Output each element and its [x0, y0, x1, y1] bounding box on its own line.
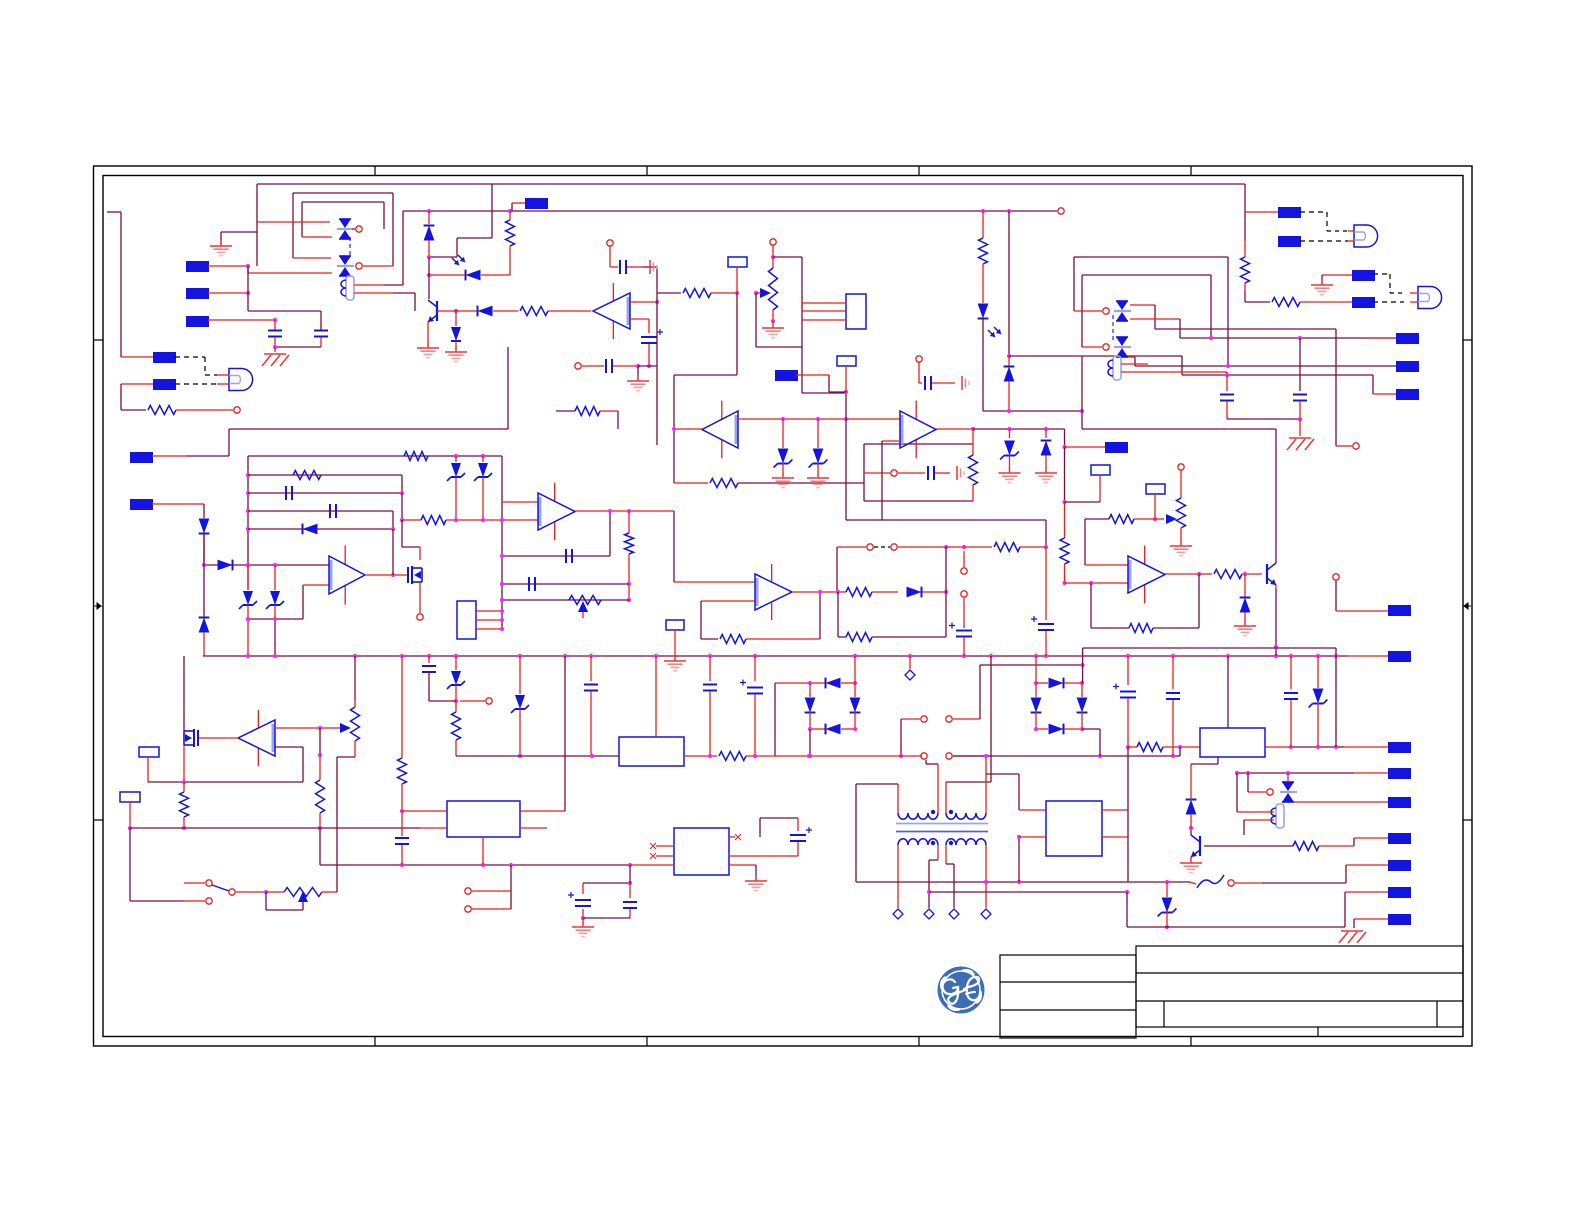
- wire: [1335, 656, 1337, 747]
- resistor R24: [398, 758, 407, 813]
- resistor R20: [846, 588, 898, 597]
- node: [512, 208, 1064, 214]
- node: [352, 226, 362, 232]
- wire: [984, 754, 988, 814]
- resistor R10: [404, 452, 428, 461]
- zener Z5: [772, 419, 794, 488]
- wire: [674, 511, 755, 582]
- diode D9: [907, 587, 949, 598]
- wire: [1227, 417, 1302, 436]
- connector J1: [186, 261, 250, 272]
- wire: [583, 918, 630, 926]
- capacitor C24: [623, 902, 637, 918]
- node: [916, 356, 922, 383]
- zener Z11: [447, 656, 465, 703]
- wire: [1244, 212, 1246, 257]
- wire: [1265, 746, 1291, 748]
- wire: [365, 529, 395, 577]
- resistor R17: [1091, 583, 1153, 633]
- wire: [500, 509, 612, 558]
- wire: [456, 754, 619, 758]
- wire: [246, 456, 250, 590]
- op-amp U3: [538, 483, 575, 541]
- wire: [427, 273, 465, 277]
- connector J4: [107, 212, 176, 363]
- node: [460, 698, 492, 704]
- ground: [762, 321, 784, 338]
- wire: [1034, 656, 1038, 685]
- connector J24: [1354, 914, 1411, 928]
- wire: [802, 303, 846, 320]
- wire: [1082, 275, 1211, 347]
- wire: [248, 311, 321, 330]
- wire: [476, 618, 504, 622]
- switch SW4: [921, 753, 991, 759]
- bridge diode D17: [1034, 724, 1084, 735]
- wire: [349, 237, 351, 258]
- wire: [393, 574, 402, 576]
- diode D18: [1186, 757, 1218, 828]
- wire: [402, 520, 420, 560]
- wire: [1274, 589, 1278, 656]
- diode D19: [1035, 429, 1057, 483]
- wire: [175, 383, 229, 385]
- wire: [808, 729, 812, 758]
- resistor R5: [683, 289, 739, 298]
- border frame inner: [103, 176, 1463, 1037]
- resistor R29: [452, 701, 461, 756]
- ground: [1339, 931, 1366, 943]
- capacitor C5: [919, 376, 955, 390]
- wire: [248, 527, 395, 531]
- ground: [1180, 857, 1202, 873]
- wire: [1007, 211, 1011, 358]
- led DS-L1: [978, 304, 1001, 412]
- connector J8: [1366, 333, 1419, 344]
- capacitor C25: [422, 656, 436, 701]
- wire: [275, 726, 340, 730]
- terminal: [893, 909, 903, 919]
- op-amp U7: [702, 401, 738, 459]
- ground: [627, 366, 649, 391]
- border ticks: [94, 166, 1473, 1046]
- node: [1248, 773, 1273, 795]
- wire: [275, 747, 303, 782]
- node: [770, 239, 776, 259]
- wire: [674, 293, 737, 483]
- wire: [729, 865, 756, 880]
- switch SW2: [465, 865, 511, 912]
- wire: [864, 444, 973, 501]
- op-amp U10: [238, 710, 275, 766]
- wire: [1121, 372, 1227, 375]
- wire: [657, 292, 681, 294]
- wire: [629, 865, 631, 883]
- photodiode U-PD1: [452, 255, 510, 280]
- wire: [1082, 648, 1084, 683]
- transformer T1 secondary: [898, 839, 986, 845]
- node: [417, 614, 423, 620]
- resistor R25: [1128, 743, 1200, 752]
- wire: [1130, 305, 1336, 329]
- ground: [962, 376, 969, 390]
- wire: [897, 845, 899, 908]
- switch SW1: [184, 880, 268, 895]
- wire: [1082, 356, 1276, 429]
- wire: [946, 845, 954, 908]
- wire: [846, 520, 1048, 549]
- resistor R26: [1204, 842, 1354, 851]
- wire: [882, 441, 900, 520]
- capacitor C7: [1220, 375, 1234, 419]
- wire: [1130, 319, 1180, 338]
- triac Q-T2: [337, 256, 354, 276]
- potentiometer P4: [351, 656, 360, 757]
- opto coil U-OC1: [341, 276, 354, 300]
- rect label: [837, 356, 856, 392]
- wire: [1127, 926, 1345, 928]
- ground: [262, 347, 289, 366]
- wire: [482, 837, 484, 865]
- wire: [1045, 547, 1047, 620]
- wire: [1074, 257, 1228, 366]
- node: [575, 363, 604, 369]
- node: [961, 551, 967, 574]
- wire: [1244, 820, 1274, 835]
- potentiometer P5: [266, 888, 322, 911]
- connector J6: [512, 198, 548, 211]
- wire: [856, 784, 898, 882]
- GE logo: [938, 967, 985, 1014]
- wire: [984, 845, 988, 884]
- opto coil U-OC2: [1108, 356, 1121, 380]
- wire: [1121, 363, 1148, 365]
- capacitor C13 electrolytic: [949, 623, 972, 657]
- rect label: [1065, 465, 1111, 502]
- wire: [302, 202, 384, 237]
- connector J16: [130, 499, 204, 510]
- rect label: [666, 620, 684, 660]
- bus wire: [203, 654, 1348, 658]
- potentiometer P3: [1155, 464, 1192, 556]
- diode D8: [1234, 574, 1256, 636]
- connector J-T1: [1278, 207, 1301, 218]
- ic U12: [1046, 801, 1102, 856]
- switch SW3: [899, 716, 980, 758]
- op-amp U5: [329, 545, 365, 604]
- potentiometer P2: [569, 596, 601, 619]
- diode D2: [445, 309, 467, 362]
- wire: [1300, 240, 1348, 242]
- mosfet Q2: [402, 566, 422, 584]
- connector J12: [1278, 236, 1301, 247]
- node: [1353, 443, 1359, 449]
- resistor R7: [969, 429, 978, 501]
- triac Q-T6: [1280, 773, 1297, 802]
- wire: [927, 845, 938, 908]
- wire: [792, 590, 846, 594]
- transistor Q5: [1189, 826, 1200, 857]
- terminal: [981, 882, 991, 919]
- ic U13: [1200, 728, 1265, 757]
- wire: [856, 880, 1190, 884]
- zener Z3: [239, 565, 257, 656]
- wire: [926, 760, 938, 813]
- capacitor C14 electrolytic: [1031, 616, 1054, 656]
- triac Q-T3: [1114, 301, 1131, 321]
- wire: [1112, 315, 1114, 343]
- connector J3: [186, 316, 277, 327]
- wire: [986, 774, 1046, 882]
- connector J7: [1105, 442, 1128, 453]
- wire: [737, 417, 900, 421]
- connector J13: [1352, 270, 1375, 281]
- wire: [401, 656, 403, 758]
- wire: [248, 454, 502, 458]
- triac Q-T1: [337, 219, 354, 239]
- wire: [708, 754, 811, 758]
- wire: [354, 211, 403, 285]
- wire: [500, 582, 629, 586]
- connector J19b: [1336, 742, 1411, 753]
- potentiometer P1 wiper: [754, 288, 771, 298]
- capacitor C11: [566, 549, 572, 563]
- connector J5: [121, 379, 176, 410]
- connector J19: [775, 370, 846, 392]
- resistor R27: [674, 479, 864, 488]
- zener Z8: [1158, 882, 1177, 929]
- capacitor C16: [584, 656, 598, 756]
- wire: [1373, 301, 1404, 303]
- lamp DS3: [1410, 287, 1442, 309]
- bridge diode D13: [808, 724, 857, 735]
- wire: [983, 409, 1084, 413]
- resistor R1: [121, 406, 233, 415]
- wire: [248, 258, 332, 273]
- wire: [837, 547, 866, 592]
- connector J22: [1354, 833, 1411, 846]
- wire: [273, 345, 321, 349]
- potentiometer P4 wiper: [340, 723, 351, 733]
- wire: [257, 222, 332, 237]
- resistor R28: [684, 752, 922, 761]
- node: [864, 470, 897, 476]
- wire: [990, 656, 992, 782]
- potentiometer P1: [769, 257, 778, 323]
- capacitor C15: [395, 811, 409, 865]
- wire: [402, 810, 447, 812]
- resistor R12: [421, 516, 538, 525]
- ic U11: [447, 801, 520, 837]
- resistor R18: [1199, 570, 1262, 579]
- wire: [630, 267, 659, 304]
- wire: [175, 357, 229, 375]
- wire: [638, 302, 657, 445]
- node: [206, 898, 212, 904]
- ground: [572, 921, 594, 937]
- transistor Q1: [428, 257, 449, 347]
- wire: [476, 609, 504, 613]
- wire: [322, 757, 355, 892]
- bridge diode D12: [850, 656, 861, 729]
- bridge diode D16: [1077, 683, 1088, 729]
- wire: [1126, 892, 1128, 927]
- wire: [1289, 745, 1338, 749]
- wire: [936, 427, 1065, 431]
- wire: [1348, 655, 1388, 657]
- wire: [655, 656, 657, 737]
- capacitor C19 electrolytic: [1113, 656, 1136, 749]
- wire: [1179, 747, 1181, 756]
- ic U14: [674, 828, 729, 875]
- connector J18: [1388, 651, 1411, 662]
- wire: [221, 184, 257, 266]
- ground: [664, 655, 686, 671]
- resistor R14: [964, 543, 1046, 552]
- ground: [210, 232, 232, 256]
- diode D1: [424, 211, 435, 257]
- connector J10: [1396, 389, 1419, 400]
- lamp DS1: [229, 369, 253, 391]
- transformer core: [896, 824, 988, 832]
- resistor R22: [180, 782, 189, 830]
- connector J2: [186, 266, 250, 311]
- connector J14: [1352, 297, 1375, 308]
- connector J23: [1345, 887, 1411, 927]
- wire: [980, 663, 1085, 719]
- border frame outer: [94, 166, 1473, 1046]
- connector J20: [1235, 768, 1411, 779]
- wire: [1336, 329, 1352, 446]
- mosfet Q4: [184, 656, 204, 782]
- wire: [148, 780, 303, 784]
- resistor R15: [1060, 447, 1069, 585]
- op-amp U8: [900, 401, 936, 459]
- wire: [929, 890, 1129, 894]
- wire: [500, 598, 629, 602]
- capacitor C12: [529, 577, 535, 591]
- wire: [630, 864, 674, 866]
- capacitor C3: [610, 260, 657, 274]
- capacitor C6: [898, 466, 950, 480]
- capacitor C22 electrolytic: [729, 818, 812, 856]
- rect label: [120, 792, 140, 830]
- zener Z10: [999, 429, 1021, 483]
- node: [1074, 308, 1109, 314]
- resistor R2: [506, 211, 515, 275]
- zener Z6: [807, 419, 829, 488]
- wire: [1009, 356, 1182, 375]
- rect label: [1146, 484, 1165, 521]
- wire: [1180, 336, 1396, 340]
- capacitor C4: [606, 359, 651, 373]
- bridge diode D10: [808, 678, 857, 689]
- transistor Q3: [1267, 429, 1276, 589]
- zener Z2: [474, 456, 492, 520]
- zener Z9: [1309, 656, 1328, 747]
- wire: [248, 511, 393, 529]
- bridge diode D14: [1036, 678, 1084, 689]
- ic U15: [619, 737, 684, 766]
- capacitor C23 electrolytic: [568, 883, 591, 920]
- capacitor C9: [286, 486, 292, 500]
- op-amp U9: [755, 564, 792, 620]
- wire: [257, 184, 1278, 212]
- connector J15: [130, 452, 229, 463]
- wire: [403, 209, 512, 213]
- title block: [1000, 946, 1463, 1038]
- node: [1228, 880, 1262, 886]
- wire: [575, 510, 674, 512]
- capacitor C21: [1284, 656, 1298, 747]
- node: [1333, 574, 1388, 611]
- capacitor C18 electrolytic: [740, 656, 763, 756]
- wire: [502, 501, 538, 503]
- connector J25: [1262, 860, 1411, 883]
- wire: [1237, 773, 1274, 812]
- connector J21: [1294, 797, 1411, 808]
- wire: [318, 728, 322, 780]
- wire: [1128, 357, 1135, 366]
- wire: [202, 563, 329, 567]
- bridge diode D15: [1031, 683, 1042, 729]
- wire: [1245, 291, 1270, 302]
- op-amp U6: [1128, 546, 1165, 604]
- wire: [946, 782, 991, 813]
- wire: [1019, 836, 1046, 838]
- resistor R11: [293, 471, 321, 480]
- opto coil U-OC3: [1271, 804, 1284, 828]
- wire: [672, 427, 702, 431]
- resistor R3: [520, 307, 591, 316]
- transformer T1 primary: [898, 810, 986, 819]
- wire: [1227, 656, 1229, 728]
- resistor R4: [556, 407, 618, 430]
- resistor R13: [625, 509, 634, 602]
- wire: [320, 863, 632, 867]
- ground: [957, 466, 964, 480]
- connector J9: [1396, 361, 1419, 372]
- capacitor C10: [330, 504, 336, 518]
- lamp DS2: [1348, 225, 1378, 247]
- wire: [1322, 275, 1352, 284]
- capacitor C2: [314, 331, 328, 348]
- node: [607, 240, 613, 264]
- ground: [1311, 279, 1333, 295]
- wire: [520, 656, 565, 811]
- resistor R6: [979, 238, 988, 303]
- diode D7: [218, 560, 233, 571]
- ground: [745, 875, 767, 891]
- wire: [1165, 572, 1201, 576]
- ground: [1287, 438, 1314, 450]
- node: [234, 407, 240, 413]
- wire: [630, 319, 649, 333]
- wire: [1082, 729, 1100, 756]
- bridge diode D11: [805, 683, 816, 729]
- wire: [130, 827, 420, 829]
- wire: [501, 456, 503, 629]
- wire: [1065, 581, 1129, 585]
- resistor R19: [720, 592, 820, 644]
- wire: [203, 532, 205, 565]
- wire: [402, 519, 421, 521]
- wire: [838, 592, 846, 637]
- ground: [650, 260, 657, 274]
- connector J17: [1388, 605, 1411, 616]
- wire: [982, 211, 984, 238]
- triac Q-T4: [1114, 337, 1131, 357]
